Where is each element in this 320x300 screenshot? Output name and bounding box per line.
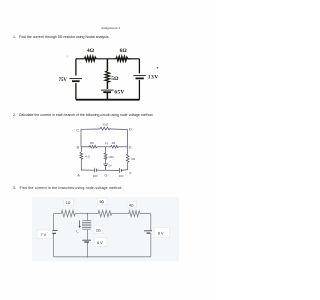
svg-text:1Ω: 1Ω [66, 201, 71, 205]
label box 6V [94, 238, 107, 247]
resistor R1 4ohm zigzag [85, 57, 97, 62]
resistor R3 5ohm vertical zigzag [105, 71, 110, 83]
svg-text:3. Find the current in the b: 3. Find the current in the branches usin… [13, 186, 123, 190]
wire: c3 right side [150, 214, 152, 231]
label box 8V [154, 227, 170, 237]
gray panel background [32, 197, 179, 262]
wire: circuit1 bottom wire [76, 99, 139, 101]
wire: c3 bottom [54, 256, 151, 258]
svg-text:4Ω: 4Ω [112, 141, 116, 145]
label box 2 ohm [94, 225, 103, 233]
svg-text:30V: 30V [119, 174, 124, 178]
svg-text:6Ω: 6Ω [131, 157, 135, 161]
svg-text:20V: 20V [93, 174, 98, 178]
wire: middle branch vertical [106, 59, 108, 71]
svg-text:65V: 65V [114, 89, 124, 95]
stray dot [157, 67, 158, 68]
battery V2 13V right [133, 75, 145, 77]
svg-text:D: D [129, 127, 132, 132]
svg-text:4 Ω: 4 Ω [85, 155, 89, 159]
battery V3 65V middle [101, 89, 114, 91]
svg-text:13V: 13V [148, 75, 159, 81]
battery 2V middle [103, 163, 108, 165]
svg-text:7 V: 7 V [41, 233, 47, 237]
wire: c3 left side [53, 214, 55, 231]
svg-text:4Ω: 4Ω [87, 48, 94, 54]
battery 20V bottom-left ticks [94, 168, 96, 173]
resistor 8ohm zigzag [89, 145, 97, 148]
wire: c3 middle branch [86, 214, 88, 221]
wire: circuit1 right side [138, 59, 140, 74]
resistor 4ohm left branch vertical [80, 152, 83, 160]
svg-text:8 V: 8 V [158, 231, 164, 235]
resistor 2 ohm coil middle [82, 221, 91, 230]
wire: circuit1 outer rectangle left side [75, 59, 77, 76]
svg-text:C: C [76, 128, 79, 133]
junction dot top [87, 213, 89, 215]
svg-text:A: A [77, 172, 80, 177]
battery 30V bottom-right ticks [119, 168, 121, 173]
resistor 4ohm zigzag mid-right [111, 145, 119, 148]
label box 1 ohm [64, 199, 74, 206]
wire: c2 top wire [81, 128, 99, 130]
wire: c2 mid wire B-E [81, 146, 89, 148]
resistor 5 ohm zigzag [97, 210, 111, 216]
page background [0, 0, 212, 300]
svg-text:2. Calculate the current in: 2. Calculate the current in each branch … [13, 113, 153, 117]
label box 5 ohm [98, 198, 108, 205]
svg-text:Assignment 1: Assignment 1 [101, 26, 120, 30]
label box 4 ohm [127, 201, 137, 208]
battery 6V lines middle [82, 239, 91, 241]
wire: c2 left side [80, 129, 82, 147]
resistor R2 6ohm zigzag [116, 57, 132, 62]
svg-text:H: H [105, 142, 108, 146]
svg-text:10Ω: 10Ω [108, 155, 113, 159]
svg-text:2Ω: 2Ω [96, 228, 101, 232]
wire: c2 bottom wire [81, 169, 94, 171]
resistor 4 ohm zigzag [128, 211, 140, 217]
battery 8V lines right [144, 230, 152, 232]
resistor 1 ohm zigzag [60, 210, 75, 216]
svg-text:6Ω: 6Ω [120, 48, 127, 54]
resistor 30ohm zigzag top [99, 127, 111, 130]
current source arrow Is [79, 220, 81, 226]
resistor 10ohm middle vertical [104, 153, 107, 160]
svg-text:G: G [104, 172, 107, 177]
svg-text:75V: 75V [59, 78, 68, 83]
svg-text:4Ω: 4Ω [129, 204, 134, 208]
svg-text:2V: 2V [108, 164, 112, 168]
svg-text:6 V: 6 V [97, 241, 103, 245]
battery V1 75V left [70, 78, 83, 80]
wire: circuit1 top wire [76, 58, 85, 60]
svg-text:5Ω: 5Ω [111, 76, 118, 82]
svg-text:8Ω: 8Ω [90, 141, 94, 145]
battery 7V lines [49, 230, 57, 232]
wire: c2 middle branch [105, 147, 107, 153]
svg-text:B: B [77, 145, 80, 150]
faint smudge [66, 55, 68, 57]
wire: c3 top wire [54, 213, 61, 215]
svg-text:30 Ω: 30 Ω [102, 123, 108, 127]
svg-text:1. Find the current through: 1. Find the current through 5Ω resistor … [13, 35, 109, 39]
resistor 6ohm right branch vertical [126, 154, 129, 162]
junction dot bottom [87, 256, 89, 258]
svg-text:E: E [129, 145, 132, 150]
svg-text:5Ω: 5Ω [100, 200, 105, 204]
wire: c2 right side [127, 130, 129, 147]
label box 7V [37, 230, 52, 239]
